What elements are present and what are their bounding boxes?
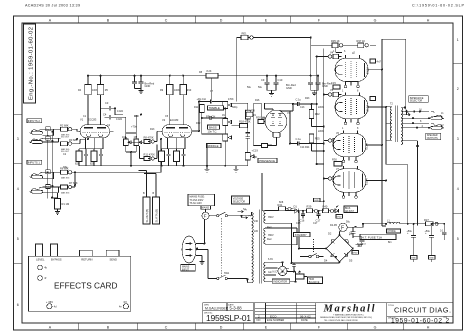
capacitor C9b smoothing at bus end [308,76,320,93]
resistor R7 68K [61,172,78,194]
svg-text:R24: R24 [305,146,310,149]
bridge rectifier D2-D5 [324,232,353,263]
svg-text:R15 82K: R15 82K [245,108,255,112]
svg-text:R12: R12 [196,122,201,125]
svg-text:ECE NUMBER: ECE NUMBER [267,318,284,322]
svg-text:MAINS: MAINS [202,207,210,210]
wire PI input [232,103,263,123]
label HUM BALANCE [308,277,323,284]
potentiometer VOL1 [122,135,131,146]
svg-text:C.1u: C.1u [296,97,302,101]
resistor R25 bias feed lower [309,134,314,143]
plate bus wires [366,39,382,226]
svg-text:0.022: 0.022 [116,118,123,121]
svg-text:470K: 470K [228,98,234,101]
resistor R2 68K [60,123,80,138]
node dots bias [302,200,325,211]
ground main bus [234,166,239,172]
resistor R15 cathode V2b [174,151,180,162]
label INDICATOR [272,279,290,283]
wire C3 net [101,105,124,115]
svg-text:GND: GND [357,246,362,248]
svg-text:5-3-88: 5-3-88 [230,306,243,311]
resistor R18 [240,124,248,128]
svg-text:R30: R30 [332,158,337,162]
capacitor C17 bias [316,211,320,219]
svg-text:LEVEL: LEVEL [36,258,45,262]
choke L1 [387,222,400,224]
svg-text:+50u: +50u [425,230,431,233]
node dots output [381,69,387,182]
earth mains [196,256,205,265]
svg-text:BYPASS: BYPASS [51,258,62,262]
wire presence ground [231,160,248,166]
svg-text:C: C [165,19,168,23]
svg-text:® MARSHALL AMPLIFICATION PLC: ® MARSHALL AMPLIFICATION PLC [333,314,365,317]
svg-text:SELECTOR: SELECTOR [410,101,423,103]
svg-text:2: 2 [446,317,450,324]
svg-text:G: G [374,19,377,23]
screen drops to tubes [336,45,350,57]
svg-text:R2 68K: R2 68K [60,123,69,127]
svg-text:10n T.C.: 10n T.C. [208,130,218,134]
svg-text:ACAD24S 30 Jul 2003 13:39: ACAD24S 30 Jul 2003 13:39 [25,3,80,7]
svg-text:SEND: SEND [110,258,118,262]
jack input1 hi [30,172,43,178]
svg-text:EL34: EL34 [365,143,369,150]
svg-text:SPEAKER: SPEAKER [427,134,438,137]
svg-text:R8 470K: R8 470K [144,136,154,140]
svg-text:Eng.-No.: 1959-01-60-02: Eng.-No.: 1959-01-60-02 [29,27,35,100]
wire PI anodes up [265,109,292,111]
svg-text:50u: 50u [258,86,263,89]
svg-text:F: F [341,226,344,232]
svg-text:EL34: EL34 [365,178,369,185]
svg-text:6: 6 [17,303,19,307]
potentiometer MIDDLE pot [223,134,232,141]
capacitor C21 between tubes 3-4 [332,158,342,167]
pad 1a [46,127,50,131]
svg-text:OUTPUTS: OUTPUTS [427,138,438,140]
ground smoothing caps [269,93,274,96]
potentiometer bias pot [335,206,339,213]
svg-text:350V: 350V [268,216,274,219]
svg-text:Red: Red [267,238,272,241]
svg-text:EL34: EL34 [366,105,370,112]
svg-text:R35 1K: R35 1K [331,39,340,43]
resistor R19 vertical [246,110,251,119]
svg-text:MAINS: MAINS [182,265,190,268]
grid stopper tube4 [328,176,341,180]
svg-text:R1 1M: R1 1M [62,202,70,206]
wire mains live [196,209,252,243]
wire bus to treble cap [210,78,212,99]
svg-text:1959-01-60-02: 1959-01-60-02 [391,317,442,324]
wire OT primary leads [386,107,392,141]
capacitor C8 cathode V2b [181,151,185,162]
more tiny labels [83,90,444,275]
svg-text:220K: 220K [318,106,324,109]
svg-text:MAX SIG: MAX SIG [61,191,70,194]
svg-text:HUM: HUM [309,279,314,281]
label INPUTS 1 [27,160,42,164]
svg-text:STANDBY: STANDBY [295,233,307,237]
svg-text:M.GALLINGER: M.GALLINGER [205,306,229,310]
voltage selector pins [237,211,247,219]
wire jack sleeve ground [51,132,54,199]
grid stopper tube3 [328,138,341,142]
wire grid bus B [323,49,325,202]
mains input connector [182,236,196,263]
svg-text:R21: R21 [268,144,273,147]
svg-text:V2: V2 [162,118,166,122]
grid stopper tube2 [328,92,341,96]
transformer T2 secondary [401,108,402,145]
valve V4 EL34 [330,51,370,88]
label IMPEDANCE SELECTOR [409,96,428,103]
svg-text:6.3V: 6.3V [268,258,273,261]
capacitor C9 smoothing [265,76,270,91]
svg-text:Marshall: Marshall [323,303,375,314]
svg-text:D2-D5: D2-D5 [330,224,338,227]
svg-text:1959SLP-01: 1959SLP-01 [206,313,251,323]
resistor R6 68K [60,139,161,180]
svg-text:R25: R25 [315,137,320,141]
svg-text:D: D [220,326,223,330]
capacitor C4 [105,115,116,119]
svg-text:Red: Red [267,226,272,229]
wire screen bus [248,38,376,76]
svg-text:PRESENCE: PRESENCE [259,159,275,163]
connector tab BYPASS [51,244,58,256]
svg-text:EFFECTS CARD: EFFECTS CARD [54,280,118,290]
resistor R16 slope [200,105,205,113]
wire grid bus A [317,57,324,165]
label BASS [208,125,220,129]
transformer T2 core [396,106,398,143]
label GND bias [336,215,343,219]
connector tab LEVEL [35,244,42,256]
svg-text:+50u: +50u [407,230,413,233]
potentiometer VOL2 [134,135,142,146]
svg-text:C18: C18 [296,222,301,225]
ground input [55,212,60,215]
svg-text:R17: R17 [262,117,267,120]
svg-text:+C19: +C19 [252,149,259,153]
svg-text:R40: R40 [323,205,328,209]
svg-text:C15: C15 [331,81,336,85]
potentiometer BASS pot [223,119,232,126]
svg-text:N.C.: N.C. [273,270,278,274]
pad 0V [123,304,128,309]
resistor R27 [424,218,438,226]
wire treble to bass [202,109,226,122]
capacitor C12 bass [210,116,225,120]
resistor R36 bias [323,205,334,213]
resistor R11 mixer [140,145,158,161]
svg-text:DENBIGH ROAD, BLETCHLEY, MILTO: DENBIGH ROAD, BLETCHLEY, MILTON KEYNES, … [320,316,373,319]
wire bass to middle [202,122,226,135]
wire bias to grid resistors [317,201,324,210]
svg-text:R16: R16 [255,99,260,102]
node dots heater [282,261,297,282]
label GND C23 [429,256,436,260]
svg-text:INPUT: INPUT [182,269,189,271]
svg-text:2: 2 [457,87,459,91]
svg-text:ECC83: ECC83 [170,118,179,122]
node dots ground bus [130,165,208,167]
pad 1c [46,170,50,174]
connector tab SEND [106,250,119,256]
svg-text:TEL: 01908 375411 FAX: 01908: TEL: 01908 375411 FAX: 01908 376118 [324,319,358,322]
label SPEAKER OUTPUTS [426,133,441,140]
svg-text:4n7: 4n7 [377,60,382,64]
resistor R8 series bus [206,73,218,78]
border row numbers [17,38,459,307]
svg-text:5: 5 [17,237,19,241]
transformer T1 primary winding [252,212,254,282]
svg-text:F: F [204,214,207,219]
ground middle pot [205,166,210,172]
pad 1d [46,185,50,189]
resistor R9 anode V2a [167,85,174,95]
svg-text:8.2K: 8.2K [207,70,212,73]
label GND heater [287,268,289,270]
capacitor C7 cathode V2 [166,151,170,162]
wire bias feeds [312,104,324,151]
label MIDDLE [207,144,222,148]
svg-text:BASS: BASS [209,125,217,129]
label GND C22 [411,256,418,260]
capacitor C3 [106,104,115,110]
label TREBLE [208,106,224,110]
svg-text:820: 820 [75,162,80,166]
svg-text:Brn: Brn [388,241,392,244]
jack input2 lo [30,138,43,143]
svg-text:IMPEDANCE: IMPEDANCE [410,97,424,100]
svg-text:VOLTAGE: VOLTAGE [233,197,244,200]
svg-text:SW1: SW1 [224,272,230,275]
jack speaker 2 [431,123,444,129]
svg-text:BALANCE: BALANCE [309,281,320,284]
svg-text:CHOKE: CHOKE [388,231,397,233]
diode D1 bias [294,204,299,213]
svg-text:4: 4 [457,187,459,191]
svg-text:500p: 500p [232,106,238,109]
label PRESENCE [258,158,277,163]
resistor R37 screen [357,39,369,48]
wire grid stubs to tubes [324,57,328,179]
valve V2 ECC83 [160,118,194,143]
wire input ch1 [43,172,61,198]
wire PT primary leads [208,212,252,282]
svg-text:BIAS: BIAS [345,207,351,210]
border column letters top [49,19,430,23]
svg-text:T6.3A 110V: T6.3A 110V [190,202,203,205]
resistor R8 mixer [144,131,161,143]
resistor R35 screen [331,39,343,48]
wire heater run [266,262,283,281]
node dots tone [198,101,226,167]
heater second run [266,268,278,275]
svg-text:R13: R13 [150,128,155,131]
capacitor C13 PI out upper [265,102,305,109]
svg-text:D5: D5 [349,259,353,263]
svg-text:GND: GND [337,216,342,218]
node dots mid [114,107,132,153]
svg-text:C.1u: C.1u [296,137,302,141]
svg-text:220K: 220K [318,130,324,133]
resistor R3 68K [61,138,86,153]
capacitor C25 heater [292,262,296,271]
svg-text:820: 820 [90,162,95,166]
svg-text:50u: 50u [346,221,351,224]
fuse FS2 HT [339,223,347,232]
indicator lamp [273,266,288,275]
svg-text:INPUTS 1: INPUTS 1 [28,160,41,164]
node dots psu [291,223,433,264]
svg-text:D: D [220,19,223,23]
svg-text:R39: R39 [307,205,312,209]
svg-text:C4: C4 [103,112,107,116]
wire bridge output up to fuse [299,227,353,263]
svg-text:100K: 100K [174,89,180,92]
resistor R41 indicator [278,203,294,211]
capacitor C13a [246,133,250,142]
svg-text:ECC83: ECC83 [88,118,97,122]
wire bias row [262,173,335,211]
wire choke to caps [382,224,444,228]
valve V3 ECC83 PI [265,110,291,137]
svg-text:240: 240 [254,220,259,223]
resistor R14 cathode V2 [159,151,165,162]
capacitor C5 interstage [134,115,139,117]
cathode network V1: wire [79,143,103,151]
svg-text:C13: C13 [300,106,305,109]
resistor R24 bias feed upper [309,110,314,119]
border column letters bottom [49,326,430,330]
svg-text:SELECTOR: SELECTOR [233,202,246,204]
impedance selector contacts [404,107,418,129]
wire loop stubs [139,171,157,198]
svg-text:C10: C10 [278,78,283,82]
svg-text:G: G [374,326,377,330]
svg-text:NO: NO [257,318,261,322]
wire HT secondary to bridge [266,210,340,263]
wire input ch2 [43,129,61,170]
svg-text:SL-OUT (B): SL-OUT (B) [145,209,149,223]
svg-text:3: 3 [17,137,19,141]
svg-text:GND: GND [286,86,292,90]
svg-text:R3a: R3a [63,166,68,169]
valve V7 EL34 [333,166,369,199]
svg-text:SL-RTN (B): SL-RTN (B) [155,209,159,223]
svg-text:D1: D1 [294,204,298,208]
Marshall logo [320,303,375,322]
wire mid ground bus [101,165,231,167]
wire coupling drop V1 to tone [132,76,143,91]
svg-text:+ 36V: + 36V [46,300,53,304]
capacitor C14 PI out lower [290,141,305,145]
capacitor C6 cathode V1b [99,151,103,162]
wire screen feed riser [237,38,241,102]
cathode network V2 [162,143,186,151]
svg-text:06-X-02: 06-X-02 [300,314,311,318]
wire cathode V2 ground [162,162,184,166]
pad +36V [47,304,52,309]
jack speaker 1 [431,111,444,120]
label MAINS [201,206,211,210]
svg-text:25K: 25K [253,156,258,159]
wire R1 hookup [52,193,57,212]
wire heater to hum pot [283,262,308,281]
transformer T1 core [260,210,262,284]
capacitor C24 filter small [442,227,447,240]
filter caps at bridge [351,227,356,238]
svg-text:MIDDLE: MIDDLE [208,144,219,148]
svg-text:Grn: Grn [268,271,273,274]
wire fuse feed [247,215,252,217]
resistor R5 anode V1b [97,85,104,95]
extra junction dots texture [51,56,445,281]
svg-text:C3: C3 [105,101,109,105]
svg-text:C9: C9 [261,78,265,82]
pad 1b [46,136,50,140]
svg-text:INPUTS 2: INPUTS 2 [28,119,41,123]
label choke [387,229,401,233]
wire vols [115,115,144,166]
svg-text:R22: R22 [315,112,320,116]
label MAINS FUSE [188,194,215,206]
grid stopper tube1 [328,54,341,58]
wire jack commons [416,117,430,147]
valve V1 ECC83 [77,118,114,143]
svg-text:100K: 100K [92,89,98,92]
wire B+ preamp bus [88,75,311,77]
transformer T2 output primary [390,107,391,141]
wire mixer [232,103,248,145]
small caps right of tubes [370,59,381,64]
wire cathode V1 ground [79,162,101,166]
svg-text:DATE: DATE [301,318,308,322]
svg-text:GND: GND [322,84,328,88]
svg-text:R7 68K: R7 68K [69,181,78,185]
svg-text:R27: R27 [424,218,429,222]
wire V2 anode drops [170,76,183,123]
svg-text:H: H [427,326,430,330]
pad 4b [38,265,43,270]
label HT FUSE [360,234,396,239]
capacitor C20 between tubes 1-2 [331,81,340,89]
extra value labels texture [63,50,444,275]
svg-text:CIRCUIT DIAG.: CIRCUIT DIAG. [394,306,451,315]
svg-text:R10: R10 [187,89,192,92]
fuse FS1 [202,212,209,219]
svg-text:5: 5 [457,237,459,241]
capacitor C10 smoothing [274,76,279,91]
svg-text:R37 1K: R37 1K [357,39,366,43]
wire HT rail to choke [353,224,387,227]
svg-text:GND: GND [145,84,151,88]
svg-text:INDICATOR: INDICATOR [274,280,288,283]
wire C13 net [265,103,317,111]
label GND tube4 cathode [314,198,321,202]
connector tab RETURN [80,250,93,256]
svg-text:1M: 1M [134,135,138,139]
label INPUTS 2 [27,119,42,123]
transformer T1 secondary HT [264,210,266,223]
resistor R34 bias [307,205,318,213]
